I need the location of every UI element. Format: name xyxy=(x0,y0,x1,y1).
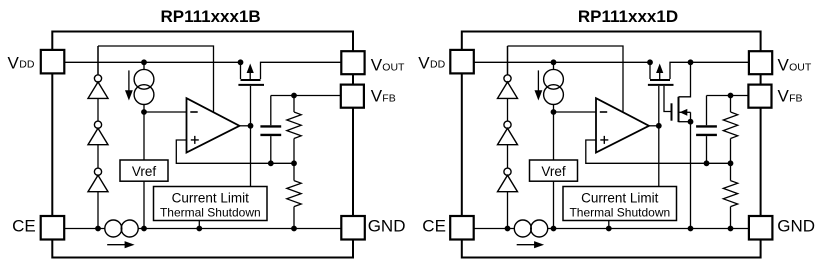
svg-text:DD: DD xyxy=(430,58,446,70)
pin box VOUT (1D) xyxy=(749,51,772,74)
svg-text:V: V xyxy=(371,56,383,75)
label CE (1D) xyxy=(422,216,446,235)
node: bias / inverting input junction (1D) xyxy=(554,111,597,113)
svg-text:V: V xyxy=(778,87,790,106)
svg-text:RP111xxx1D: RP111xxx1D xyxy=(578,7,678,26)
pin box GND (1B) xyxy=(341,216,365,240)
label VDD (1D) xyxy=(418,53,445,72)
title RP111xxx1D xyxy=(578,7,678,26)
svg-text:V: V xyxy=(778,56,790,75)
label VFB (1D) xyxy=(778,87,803,106)
label VOUT (1D) xyxy=(778,56,812,75)
protection diode chain (3 diodes) on CE input (1B) xyxy=(88,46,108,229)
error amplifier op-amp (1B) xyxy=(187,98,240,152)
Vref reference voltage box (1D) xyxy=(530,160,578,181)
pin box GND (1D) xyxy=(749,216,773,240)
wire: pass transistor drain to VOUT pin (1B) xyxy=(261,62,342,79)
current limit / thermal shutdown block (1D) xyxy=(563,187,677,221)
current direction arrow beside bias current source (1B) xyxy=(125,70,133,100)
svg-text:OUT: OUT xyxy=(382,62,405,74)
svg-text:GND: GND xyxy=(777,216,815,235)
wire: current limit block stub to ground rail (1B) xyxy=(198,221,200,229)
label GND (1D) xyxy=(777,216,815,235)
pin box VOUT (1B) xyxy=(341,51,364,74)
pin box VDD (1D) xyxy=(450,50,474,74)
discharge transistor NMOS (auto-discharge, 1D only) xyxy=(664,62,691,228)
svg-text:CE: CE xyxy=(12,216,36,235)
wire: VFB pin line to divider top (1D) xyxy=(707,95,749,97)
wire: VDD rail from VDD pin to pass transistor source (1B) xyxy=(64,61,240,63)
pin box VFB (1B) xyxy=(341,85,364,108)
node: bias / inverting input junction (1B) xyxy=(144,111,187,113)
wire: op-amp output to pass transistor gate (1D) xyxy=(649,125,659,127)
wire: Vref reference line down to ground rail (1B) xyxy=(143,112,145,229)
svg-text:GND: GND xyxy=(368,216,406,235)
svg-text:DD: DD xyxy=(19,58,35,70)
protection diode chain (3 diodes) on CE input (1D) xyxy=(498,46,518,229)
wire: riser from protection diode chain crossing VDD rail (1B) xyxy=(97,46,99,74)
CE sink current direction arrow (1B) xyxy=(107,241,134,248)
label VFB (1B) xyxy=(371,87,396,106)
wire: gate line from gate bar down to current-limit block (1B) xyxy=(250,86,252,187)
wire: bottom CE/GND rail (1B) xyxy=(64,228,341,230)
junction dots (1D) xyxy=(505,59,734,231)
error amplifier op-amp (1D) xyxy=(596,98,649,152)
label VDD (1B) xyxy=(8,53,35,72)
Vref reference voltage box (1B) xyxy=(120,160,168,181)
feedback divider resistor R1 (upper) (1D) xyxy=(723,96,737,164)
svg-text:Current Limit: Current Limit xyxy=(172,190,250,205)
wire: VDD rail from VDD pin to pass transistor source (1D) xyxy=(474,61,650,63)
feedback divider resistor R1 (upper) (1B) xyxy=(287,96,301,164)
pin box CE (1B) xyxy=(41,216,64,240)
svg-text:Current Limit: Current Limit xyxy=(581,190,659,205)
feedback divider resistor R2 (lower) (1D) xyxy=(723,163,737,228)
feedback divider resistor R2 (lower) (1B) xyxy=(287,163,301,228)
pass transistor PMOS (1B) xyxy=(238,62,264,85)
wire: op-amp output to pass transistor gate (1B) xyxy=(240,125,251,127)
wire: internal supply sub-rail feeding error amplifier (1D) xyxy=(508,46,624,112)
junction dots (1B) xyxy=(95,59,297,231)
svg-text:V: V xyxy=(8,53,20,72)
label CE (1B) xyxy=(12,216,36,235)
block diagram RP111xxx1D: outer IC boundary box xyxy=(462,32,761,258)
label GND (1B) xyxy=(368,216,406,235)
wire: riser from protection diode chain crossing VDD rail (1D) xyxy=(507,46,509,74)
CE current mirror (two circles) on bottom rail (1B) xyxy=(105,220,138,237)
block diagram RP111xxx1B: outer IC boundary box xyxy=(52,32,353,258)
pin box CE (1D) xyxy=(450,216,474,240)
svg-text:CE: CE xyxy=(422,216,446,235)
wire: non-inverting input to feedback tap (1D) xyxy=(586,140,731,163)
wire: current limit block stub to ground rail (1D) xyxy=(608,221,610,229)
svg-text:Vref: Vref xyxy=(541,164,566,179)
current direction arrow beside bias current source (1D) xyxy=(535,70,543,100)
svg-text:Thermal Shutdown: Thermal Shutdown xyxy=(160,205,261,219)
svg-text:RP111xxx1B: RP111xxx1B xyxy=(160,7,260,26)
svg-text:V: V xyxy=(371,87,383,106)
current limit / thermal shutdown block (1B) xyxy=(154,187,268,221)
label VOUT (1B) xyxy=(371,56,405,75)
svg-text:OUT: OUT xyxy=(789,62,812,74)
pin box VFB (1D) xyxy=(748,85,771,108)
svg-text:FB: FB xyxy=(382,93,395,105)
wire: bottom CE/GND rail (1D) xyxy=(474,228,749,230)
svg-text:FB: FB xyxy=(789,93,802,105)
wire: gate line from gate bar down to current-limit block (1D) xyxy=(658,86,660,187)
title RP111xxx1B xyxy=(160,7,260,26)
CE current mirror (two circles) on bottom rail (1D) xyxy=(514,220,547,237)
svg-text:V: V xyxy=(418,53,430,72)
CE sink current direction arrow (1D) xyxy=(517,241,544,248)
pin box VDD (1B) xyxy=(41,50,65,74)
wire: non-inverting input to feedback tap (1B) xyxy=(176,140,294,163)
wire: Vref reference line down to ground rail (1D) xyxy=(553,112,555,229)
wire: VFB pin line to divider top (1B) xyxy=(271,95,342,97)
wire: internal supply sub-rail feeding error amplifier (1B) xyxy=(98,46,214,112)
svg-text:Thermal Shutdown: Thermal Shutdown xyxy=(569,205,670,219)
current source (bias) from VDD rail (1D) xyxy=(544,62,564,112)
wire: pass transistor drain to VOUT pin (1D) xyxy=(670,62,749,79)
svg-text:Vref: Vref xyxy=(132,164,157,179)
phase compensation capacitor (1B) xyxy=(260,96,281,164)
phase compensation capacitor (1D) xyxy=(696,96,717,164)
pass transistor PMOS (1D) xyxy=(648,62,674,85)
current source (bias) from VDD rail (1B) xyxy=(134,62,154,112)
